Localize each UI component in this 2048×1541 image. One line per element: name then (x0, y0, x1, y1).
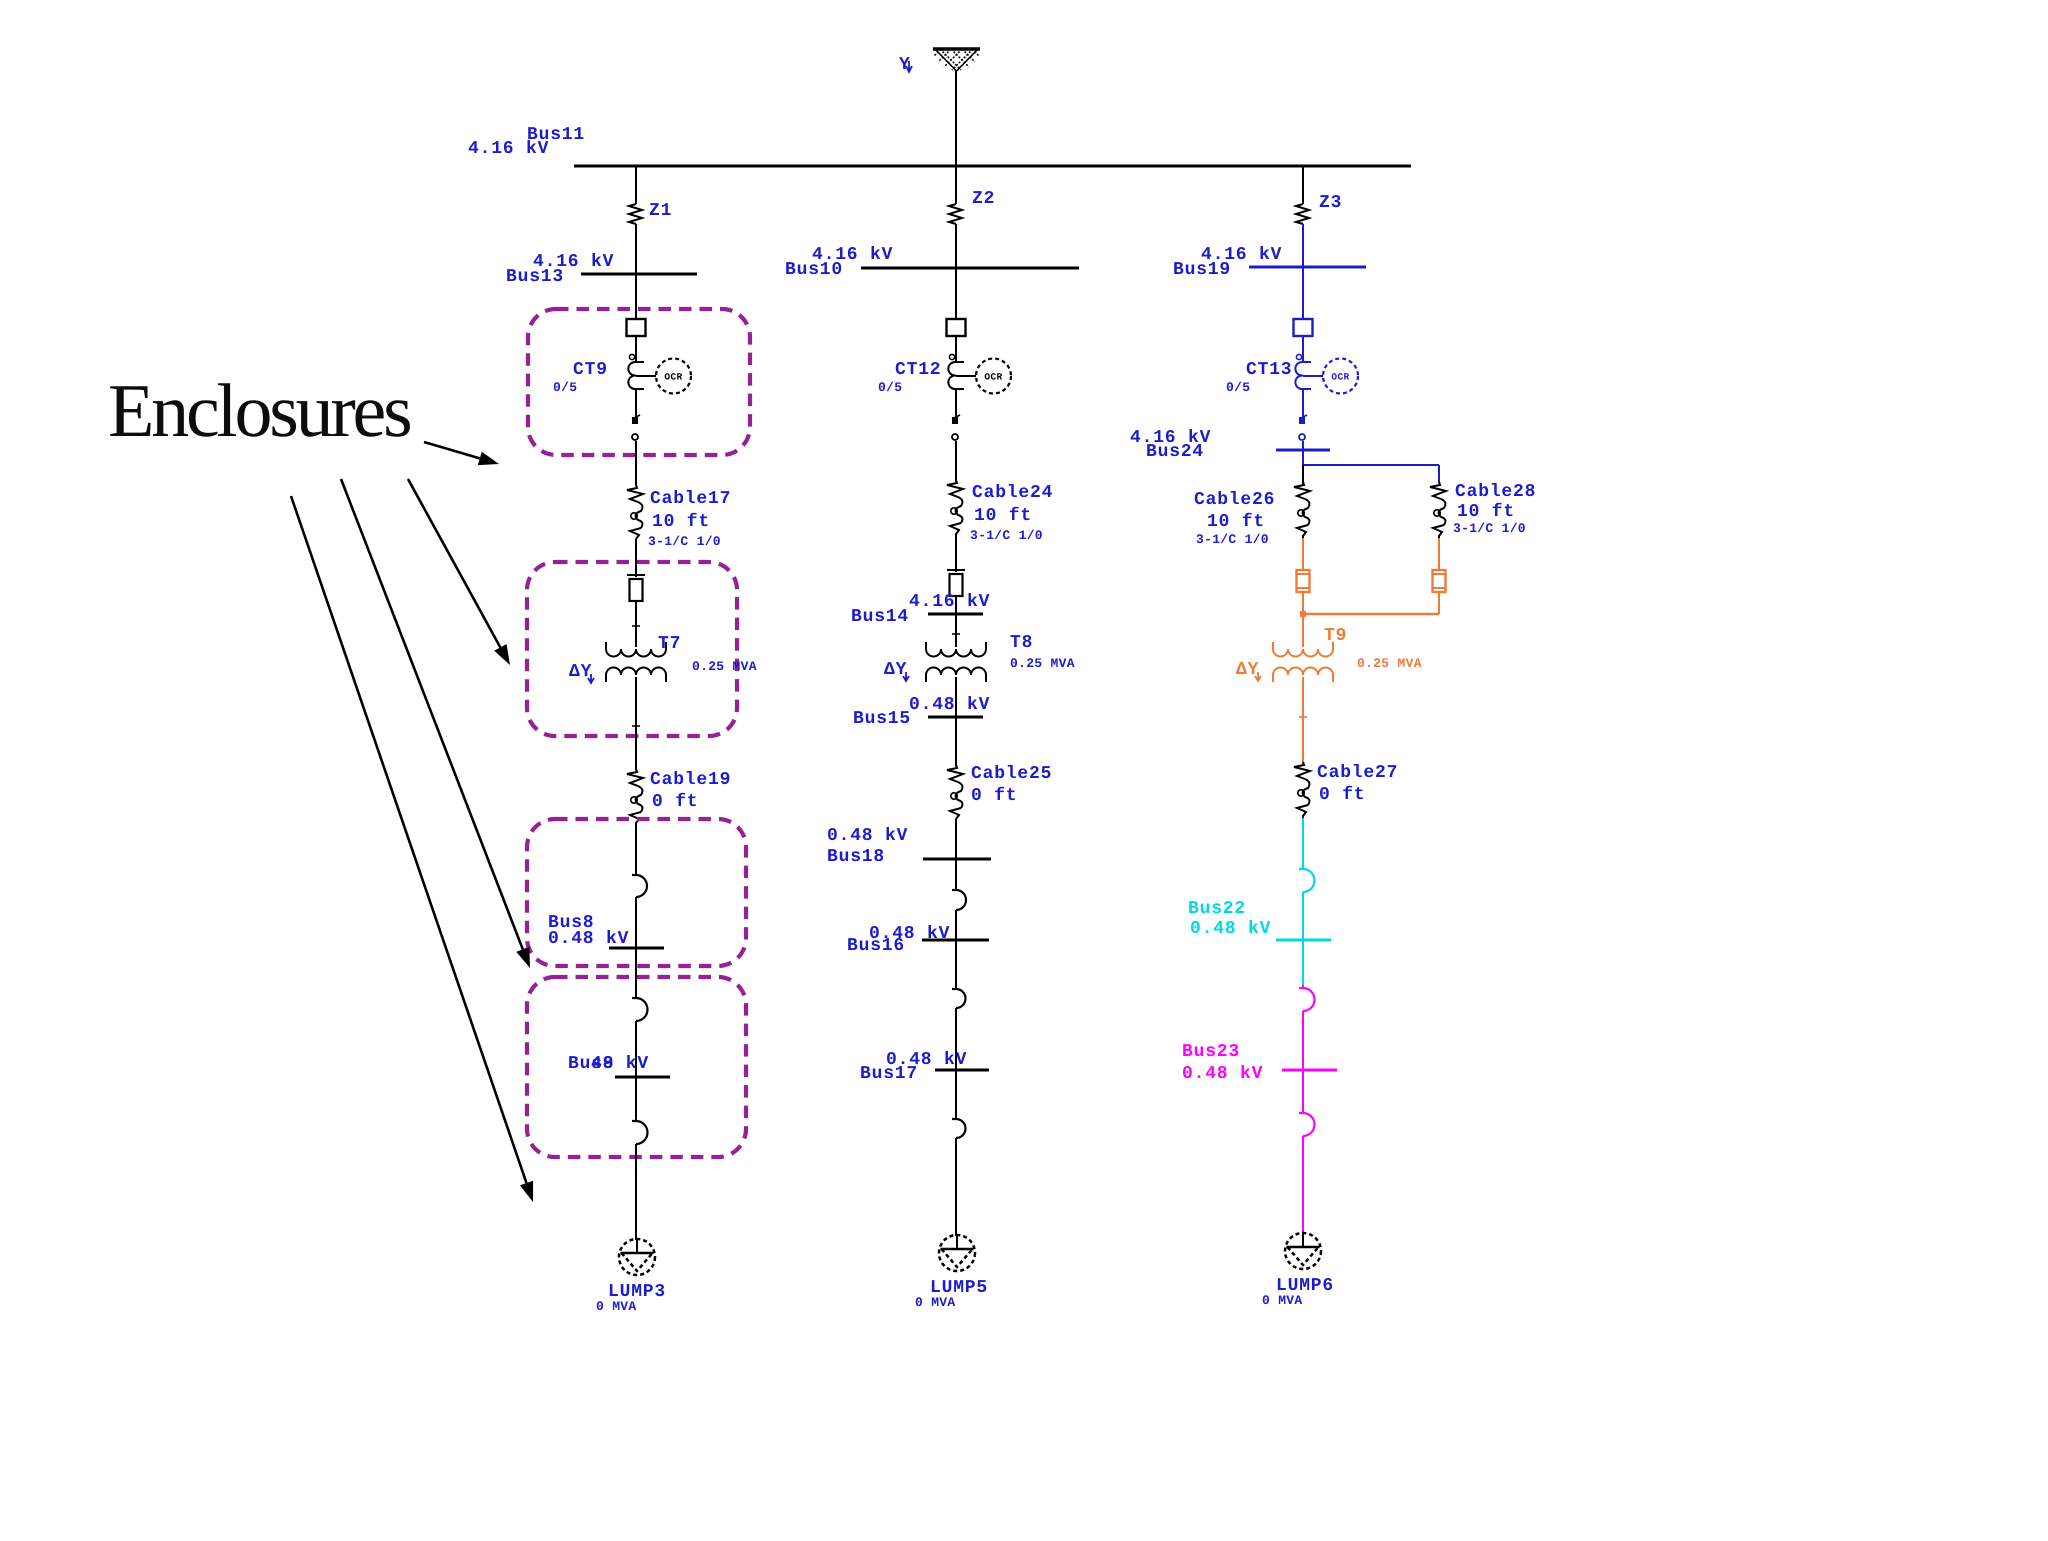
wire Z2 to Bus10 (955, 224, 957, 268)
svg-text:T9: T9 (1324, 626, 1347, 646)
svg-text:CT12: CT12 (895, 360, 941, 380)
enclosure 2 (transformer) (527, 562, 737, 736)
disconnect marks (1299, 417, 1305, 424)
svg-text:0.48 kV: 0.48 kV (827, 826, 908, 846)
cable Cable27 (1294, 762, 1310, 818)
lumped load LUMP5 (939, 1234, 975, 1271)
switch arc (952, 989, 966, 1008)
wire CT9 down (635, 389, 637, 417)
svg-text:Bus16: Bus16 (847, 936, 905, 956)
svg-text:0/5: 0/5 (878, 380, 902, 395)
svg-text:Cable27: Cable27 (1317, 763, 1398, 783)
svg-text:0/5: 0/5 (553, 380, 577, 395)
svg-text:OCR: OCR (984, 372, 1002, 383)
svg-text:Cable24: Cable24 (972, 483, 1053, 503)
cable Cable24 (947, 480, 963, 536)
wire Z3 to Bus19 (blue) (1302, 224, 1304, 267)
impedance Z1 (629, 204, 642, 224)
transformer T7 (606, 642, 666, 682)
svg-text:T8: T8 (1010, 633, 1033, 653)
wire fuse F3 down (1302, 592, 1304, 647)
wire Bus11 to Z1 (635, 166, 637, 204)
bus Bus17 (935, 1069, 989, 1072)
svg-text:T7: T7 (658, 634, 681, 654)
arrow to enclosure 4 (291, 496, 527, 1183)
bus Bus13 (581, 273, 697, 276)
svg-text:Cable28: Cable28 (1455, 482, 1536, 502)
utility source U1 (933, 49, 980, 71)
svg-text:Bus15: Bus15 (853, 709, 911, 729)
wire Cable25 to Bus18 (955, 821, 957, 890)
wire from utility to Bus11 (955, 71, 957, 165)
svg-text:10 ft: 10 ft (1457, 502, 1515, 522)
bus Bus18 (923, 858, 991, 861)
svg-text:0 MVA: 0 MVA (1262, 1293, 1303, 1308)
bus Bus11 4.16 kV (574, 165, 1411, 168)
wire to LUMP5 (955, 1138, 957, 1236)
svg-text:0.48 kV: 0.48 kV (1182, 1064, 1263, 1084)
switch arc cyan (1299, 869, 1315, 892)
switch arc (632, 1121, 648, 1144)
svg-text:CT9: CT9 (573, 360, 608, 380)
svg-text:0 ft: 0 ft (1319, 785, 1365, 805)
svg-text:Bus18: Bus18 (827, 847, 885, 867)
wire to Bus24 (1302, 441, 1304, 465)
svg-text:Cable19: Cable19 (650, 770, 731, 790)
svg-text:0.48 kV: 0.48 kV (909, 695, 990, 715)
wire fuse F2 to Bus14 (955, 596, 957, 647)
wire Cable19 down (635, 825, 637, 875)
lumped load LUMP6 (1285, 1232, 1321, 1269)
wire to Cable24 (955, 441, 957, 482)
lumped load LUMP3 (619, 1238, 655, 1275)
svg-text:48 kV: 48 kV (591, 1054, 649, 1074)
svg-text:Cable26: Cable26 (1194, 490, 1275, 510)
wire to Bus23 (1302, 1011, 1304, 1113)
svg-text:Z3: Z3 (1319, 193, 1342, 213)
switch arc magenta (1299, 1113, 1315, 1136)
wire Bus11 to Z2 (955, 166, 957, 204)
enclosure 4 (Bus9) (527, 977, 746, 1157)
wire Bus13 to breaker CB1 (635, 274, 637, 319)
svg-text:10 ft: 10 ft (652, 512, 710, 532)
svg-text:3-1/C 1/0: 3-1/C 1/0 (970, 528, 1043, 543)
wire CT12 down (955, 389, 957, 417)
wire T7 down (635, 677, 637, 770)
wire Cable26 to fuse F3 (orange) (1302, 538, 1304, 570)
wire to Cable17 (635, 441, 637, 485)
wire Bus24 to Cable26 (1302, 465, 1304, 485)
wire branch to Cable28 (blue) (1303, 464, 1439, 466)
wire Cable24 to fuse F2 (955, 536, 957, 572)
svg-text:0 ft: 0 ft (971, 786, 1017, 806)
wire Cable28 to fuse F4 (orange) (1438, 538, 1440, 570)
wire to LUMP3 (635, 1144, 637, 1240)
svg-text:Bus23: Bus23 (1182, 1042, 1240, 1062)
cable Cable17 (627, 485, 643, 541)
svg-text:0 MVA: 0 MVA (596, 1299, 637, 1314)
arrow to enclosure 2 (408, 479, 500, 648)
bus Bus19 (1249, 266, 1366, 269)
bus Bus10 (861, 267, 1079, 270)
bus Bus23 (1282, 1069, 1337, 1072)
svg-text:Bus14: Bus14 (851, 607, 909, 627)
disconnect marks (952, 417, 958, 424)
wire fuse F1 to T7 (635, 601, 637, 647)
wire T8 to Bus15 (955, 677, 957, 766)
svg-text:0 ft: 0 ft (652, 792, 698, 812)
switch arc (952, 890, 966, 910)
wire to Bus8 (635, 897, 637, 998)
svg-text:3-1/C 1/0: 3-1/C 1/0 (648, 534, 721, 549)
bus Bus16 (922, 939, 989, 942)
svg-text:0.25 MVA: 0.25 MVA (1010, 656, 1075, 671)
svg-text:3-1/C 1/0: 3-1/C 1/0 (1196, 532, 1269, 547)
enclosure 3 (Bus8) (527, 819, 746, 966)
svg-text:Bus17: Bus17 (860, 1064, 918, 1084)
svg-text:Bus13: Bus13 (506, 267, 564, 287)
wire to Bus9 (635, 1021, 637, 1121)
enclosure 1 (switchgear) (528, 309, 750, 455)
bus Bus14 (928, 613, 983, 616)
switch arc magenta (1299, 988, 1315, 1011)
svg-text:CT13: CT13 (1246, 360, 1292, 380)
cable Cable28 (1430, 482, 1446, 538)
wire to LUMP6 (1302, 1136, 1304, 1234)
bus Bus15 (928, 716, 983, 719)
wire to Bus22 (1302, 892, 1304, 985)
svg-text:10 ft: 10 ft (1207, 512, 1265, 532)
wire Cable27 down (cyan) (1302, 818, 1304, 869)
svg-text:0.25 MVA: 0.25 MVA (1357, 656, 1422, 671)
switch arc (632, 998, 648, 1021)
disconnect marks (632, 417, 638, 424)
impedance Z2 (949, 204, 962, 224)
impedance Z3 (1296, 204, 1309, 224)
wire Bus19 to breaker CB3 (1302, 267, 1304, 319)
wire breaker to CT12 (955, 336, 957, 362)
switch arc (952, 1119, 966, 1138)
svg-text:Z2: Z2 (972, 189, 995, 209)
svg-text:Bus22: Bus22 (1188, 899, 1246, 919)
bus Bus22 (1276, 939, 1331, 942)
breaker CB1 (627, 319, 646, 336)
svg-text:OCR: OCR (1331, 372, 1349, 383)
bus Bus8 (609, 947, 664, 950)
breaker CB2 (947, 319, 966, 336)
wire fuse F4 to junction (1438, 592, 1440, 614)
svg-text:Enclosures: Enclosures (108, 369, 410, 453)
wire Bus10 to breaker CB2 (955, 268, 957, 319)
breaker CB3 (1294, 319, 1313, 336)
wire breaker to CT13 (1302, 336, 1304, 362)
svg-text:0/5: 0/5 (1226, 380, 1250, 395)
transformer T8 (926, 642, 986, 682)
wire Z1 to Bus13 (635, 224, 637, 274)
svg-text:10 ft: 10 ft (974, 506, 1032, 526)
fuse F4 (1433, 570, 1446, 592)
current transformer CT9 with relay OCR (628, 354, 691, 393)
svg-text:Cable25: Cable25 (971, 764, 1052, 784)
svg-text:Bus24: Bus24 (1146, 442, 1204, 462)
svg-text:0 MVA: 0 MVA (915, 1295, 956, 1310)
wire Bus11 to Z3 (1302, 166, 1304, 204)
svg-text:3-1/C 1/0: 3-1/C 1/0 (1453, 521, 1526, 536)
wire CT13 down (1302, 389, 1304, 417)
node tick (1299, 716, 1307, 718)
wire to Bus16 (955, 910, 957, 989)
svg-text:0.48 kV: 0.48 kV (1190, 919, 1271, 939)
svg-text:Bus19: Bus19 (1173, 260, 1231, 280)
wire Cable17 to fuse F1 (635, 541, 637, 577)
cable Cable19 (627, 769, 643, 825)
node tick (952, 633, 960, 635)
wire orange tie (1303, 613, 1439, 616)
svg-text:Bus10: Bus10 (785, 260, 843, 280)
switch arc (632, 875, 647, 897)
cable Cable26 (1294, 482, 1310, 538)
bus Bus9 (615, 1076, 670, 1079)
fuse F3 (1297, 570, 1310, 592)
fuse F2 (947, 570, 965, 596)
svg-text:4.16 kV: 4.16 kV (468, 139, 549, 159)
arrow to enclosure 1 (424, 442, 480, 458)
svg-text:4.16 kV: 4.16 kV (909, 592, 990, 612)
arrow to enclosure 3 (341, 479, 523, 949)
svg-text:0.25 MVA: 0.25 MVA (692, 659, 757, 674)
bus Bus24 (1276, 449, 1330, 452)
svg-text:OCR: OCR (664, 372, 682, 383)
svg-text:Z1: Z1 (649, 201, 672, 221)
svg-text:0.48 kV: 0.48 kV (548, 929, 629, 949)
current transformer CT12 with relay OCR (948, 354, 1011, 393)
wire to Bus17 (955, 1008, 957, 1119)
transformer T9 (1273, 642, 1333, 682)
svg-text:Cable17: Cable17 (650, 489, 731, 509)
fuse F1 (627, 575, 645, 601)
wire to magenta section (1302, 985, 1304, 988)
node tick (632, 625, 640, 627)
current transformer CT13 with relay OCR (1295, 354, 1358, 393)
cable Cable25 (947, 765, 963, 821)
wire T9 to Cable27 (1302, 677, 1304, 766)
wire breaker to CT9 (635, 336, 637, 362)
node tick (632, 725, 640, 727)
